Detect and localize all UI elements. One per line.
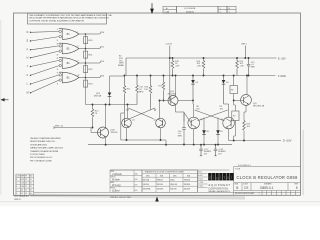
svg-text:TITLE: TITLE <box>235 168 241 170</box>
svg-text:MFD: MFD <box>251 67 256 69</box>
resistor R22 <box>84 66 94 73</box>
node CLK B input <box>169 46 171 59</box>
svg-text:W.Long: W.Long <box>112 184 121 187</box>
svg-text:R20: R20 <box>21 179 24 181</box>
gate E1C (NOR) <box>57 58 80 71</box>
DEC digital logo <box>197 170 199 192</box>
resistor R21 <box>84 51 94 58</box>
diode D5 <box>223 76 225 104</box>
svg-text:i: i <box>220 175 221 181</box>
resistor R13 <box>149 76 152 108</box>
svg-text:R7: R7 <box>233 116 235 118</box>
svg-text:1: 1 <box>16 193 17 195</box>
svg-text:6: 6 <box>16 186 17 188</box>
svg-text:02: 02 <box>30 183 32 185</box>
svg-text:CUA: CUA <box>165 11 170 14</box>
svg-text:COPYRIGHT 1969 BY DIGITAL EQUI: COPYRIGHT 1969 BY DIGITAL EQUIPMENT CORP… <box>29 19 85 22</box>
svg-text:D64: D64 <box>21 186 24 188</box>
svg-text:PRINTED CIRCUIT REV.: PRINTED CIRCUIT REV. <box>110 197 132 199</box>
transistor Q9 <box>221 117 235 129</box>
svg-text:Q2: Q2 <box>21 190 23 192</box>
top first-used strip boxes <box>163 6 236 13</box>
svg-text:D: D <box>27 31 29 34</box>
svg-text:2N1305: 2N1305 <box>143 184 149 186</box>
svg-text:i: i <box>213 175 214 181</box>
ECO column <box>198 174 208 188</box>
capacitor C18 <box>214 145 217 156</box>
resistor R7 <box>232 111 239 121</box>
svg-text:EQUIPMENT: EQUIPMENT <box>209 183 231 187</box>
svg-text:MR 1: MR 1 <box>242 44 248 46</box>
svg-text:(Q6): (Q6) <box>111 130 115 132</box>
svg-text:MR834: MR834 <box>157 180 163 182</box>
resistor R23 <box>84 80 94 87</box>
svg-text:05: 05 <box>30 193 32 195</box>
capacitor C17 <box>199 145 202 156</box>
drawing control table <box>110 170 142 192</box>
gate E1B (NOR) <box>57 43 80 56</box>
transistor Q3 <box>168 91 179 105</box>
wire output bus and terminal stubs <box>79 33 101 105</box>
svg-text:DEC: DEC <box>146 175 151 177</box>
svg-text:THIS SCHEMATIC IS FURNISHED ON: THIS SCHEMATIC IS FURNISHED ONLY FOR TES… <box>29 14 113 17</box>
diode D9 <box>216 130 220 134</box>
svg-text:g: g <box>216 176 219 181</box>
svg-text:2N1305: 2N1305 <box>157 184 163 186</box>
svg-text:IC IS DEC7400N: IC IS DEC7400N <box>30 154 45 156</box>
svg-text:PIN 14 ON EACH IC=+5V: PIN 14 ON EACH IC=+5V <box>30 156 53 159</box>
svg-text:03: 03 <box>30 186 32 188</box>
wire Q6 base and emitter <box>54 105 106 145</box>
black triangle registration mark below border <box>155 197 159 202</box>
svg-text:DEC: DEC <box>173 175 178 177</box>
svg-text:E -15V: E -15V <box>278 57 286 60</box>
wire Q3 connections <box>160 76 194 122</box>
svg-text:2N2894: 2N2894 <box>184 184 190 186</box>
diode D7 <box>108 93 112 97</box>
resistor R20 <box>84 37 94 44</box>
capacitor C15 <box>247 58 250 76</box>
svg-text:TRANSISTOR & DIODE CONVERSION: TRANSISTOR & DIODE CONVERSION CHART <box>145 171 186 174</box>
wire bottom-left rail <box>86 76 138 105</box>
svg-text:B 141: B 141 <box>198 179 202 181</box>
svg-text:a: a <box>227 176 230 181</box>
svg-text:J: J <box>57 29 58 31</box>
wire flip-flop emitter rail <box>121 113 166 145</box>
node MR 1 input <box>244 46 246 59</box>
svg-text:9-8: 9-8 <box>135 173 138 175</box>
svg-text:CLK B: CLK B <box>166 44 173 46</box>
diode D8 <box>204 118 218 145</box>
resistor R17 <box>162 76 165 101</box>
transistor Q5 <box>241 95 265 108</box>
svg-text:WHT -15: WHT -15 <box>55 126 64 128</box>
svg-text:1N3606: 1N3606 <box>184 180 190 182</box>
resistor R19 <box>243 121 246 131</box>
svg-text:2N1499A: 2N1499A <box>168 93 177 96</box>
svg-text:TRANSISTORS ARE DEC3639B: TRANSISTORS ARE DEC3639B <box>30 150 59 153</box>
node B2 label stack <box>118 56 125 68</box>
capacitor C16 <box>182 127 186 129</box>
svg-text:9-8: 9-8 <box>135 179 138 181</box>
svg-text:J.Woods: J.Woods <box>112 173 122 176</box>
svg-text:13: 13 <box>25 179 27 181</box>
svg-text:CLOCK B REGULATOR G859: CLOCK B REGULATOR G859 <box>237 175 298 180</box>
resistor R16 <box>202 58 205 76</box>
resistor R11 <box>123 76 126 113</box>
svg-text:5: 5 <box>296 186 298 190</box>
resistor R6 <box>230 86 238 94</box>
svg-text:12: 12 <box>25 190 27 192</box>
svg-text:2894-3B: 2894-3B <box>170 184 178 186</box>
gate E1A (NOR) <box>57 29 80 42</box>
svg-text:MDT4A: MDT4A <box>94 95 102 98</box>
resistor R18 <box>171 58 174 76</box>
svg-text:C 228: C 228 <box>198 182 203 184</box>
title block <box>234 167 301 196</box>
notes block <box>30 137 63 162</box>
svg-text:BRAID: BRAID <box>118 64 125 67</box>
svg-text:4: 4 <box>16 179 17 181</box>
svg-text:2N1309: 2N1309 <box>111 132 119 134</box>
svg-text:CIRCUITS ARE PROPRIETARY IN NA: CIRCUITS ARE PROPRIETARY IN NATURE AND S… <box>29 17 110 20</box>
wire rail A (-15V) and rail B (GND) <box>126 58 277 76</box>
transistor Q6 <box>98 127 119 138</box>
wire gate input lines <box>31 31 60 92</box>
svg-text:CS: CS <box>244 186 248 190</box>
svg-text:REF: REF <box>21 176 25 178</box>
diode D4 <box>192 76 194 101</box>
svg-text:2N1499: 2N1499 <box>157 189 163 191</box>
gate E1D (NOR) <box>57 72 80 85</box>
svg-text:DIODES ARE D664: DIODES ARE D664 <box>30 143 48 146</box>
top down arrow <box>151 3 154 13</box>
svg-text:2N1499A: 2N1499A <box>143 188 151 191</box>
svg-text:B: B <box>236 186 238 190</box>
left edge smudge <box>0 20 1 195</box>
svg-text:11: 11 <box>25 186 27 188</box>
proprietary note box <box>28 13 107 24</box>
svg-text:A 102: A 102 <box>198 174 202 177</box>
svg-text:G859-0-1: G859-0-1 <box>260 186 274 190</box>
svg-text:CAPACITORS ARE .01MFD;100V;20%: CAPACITORS ARE .01MFD;100V;20% <box>30 147 63 150</box>
svg-text:DRB 99: DRB 99 <box>14 199 21 201</box>
svg-text:D 310: D 310 <box>198 186 203 188</box>
svg-text:MFD: MFD <box>139 91 144 93</box>
bottom scan smudge <box>30 194 245 200</box>
svg-text:01: 01 <box>30 179 32 181</box>
svg-text:2N1309: 2N1309 <box>184 189 190 191</box>
svg-text:D.Best: D.Best <box>112 190 120 193</box>
svg-text:5: 5 <box>16 190 17 192</box>
transistor Q1 <box>122 118 136 128</box>
svg-text:2N1309: 2N1309 <box>170 189 176 191</box>
svg-text:DEC2894-3B: DEC2894-3B <box>253 106 265 108</box>
left margin arrow <box>1 99 8 102</box>
node R8 R9 labels <box>196 106 224 110</box>
svg-text:J-CU 6505B: J-CU 6505B <box>184 8 196 10</box>
svg-text:d: d <box>209 175 212 181</box>
svg-text:9-9: 9-9 <box>135 190 138 192</box>
right border inner shadow <box>302 130 305 195</box>
svg-text:2: 2 <box>16 183 17 185</box>
svg-text:MDT4A: MDT4A <box>143 179 150 182</box>
svg-text:RESISTORS ARE 1/4W; 10%: RESISTORS ARE 1/4W; 10% <box>30 140 55 143</box>
svg-text:D-CS-G859-0-1: D-CS-G859-0-1 <box>238 165 251 167</box>
svg-text:CORPORATION: CORPORATION <box>208 187 228 190</box>
transistor Q2 <box>154 118 166 128</box>
resistor R12 <box>91 105 94 128</box>
svg-text:65060-B: 65060-B <box>186 12 194 14</box>
svg-text:04: 04 <box>30 190 32 192</box>
wire flip-flop cross coupling <box>124 101 159 124</box>
svg-text:IC1: IC1 <box>21 193 24 195</box>
transistor Q8 <box>188 117 203 129</box>
svg-text:PIN 7 ON EACH IC=GND: PIN 7 ON EACH IC=GND <box>30 159 52 162</box>
svg-text:(D7): (D7) <box>96 93 100 95</box>
svg-text:W: W <box>77 75 79 77</box>
svg-text:+2W: +2W <box>197 66 201 68</box>
svg-text:C14: C14 <box>21 183 24 185</box>
svg-text:R.Hale: R.Hale <box>112 178 120 181</box>
svg-text:F GND: F GND <box>278 75 286 78</box>
svg-text:10: 10 <box>25 183 27 185</box>
svg-text:14: 14 <box>25 193 27 195</box>
svg-text:UNLESS OTHERWISE INDICATED:: UNLESS OTHERWISE INDICATED: <box>30 137 61 140</box>
conversion chart table <box>142 170 198 192</box>
svg-text:H: H <box>27 56 29 59</box>
svg-text:+2W: +2W <box>175 66 179 68</box>
svg-text:M: M <box>27 91 29 94</box>
border frame <box>14 13 301 195</box>
svg-text:9-9: 9-9 <box>135 185 138 187</box>
svg-text:R6: R6 <box>231 90 233 92</box>
svg-text:MODIFICATION HIST.: MODIFICATION HIST. <box>235 192 255 195</box>
svg-text:D +10V: D +10V <box>283 140 292 143</box>
wire right flip-flop cross coupling <box>184 101 244 145</box>
svg-text:+2W: +2W <box>240 66 244 68</box>
svg-text:l: l <box>231 175 232 181</box>
capacitor C14 <box>136 76 139 105</box>
wire bottom ground rail <box>88 144 232 146</box>
svg-text:MFD: MFD <box>178 136 183 138</box>
resistor R15 <box>236 58 239 76</box>
svg-text:7.5K: 7.5K <box>144 89 149 91</box>
parts table <box>16 174 34 195</box>
line across bottom of drawing area <box>34 191 301 193</box>
svg-text:D664: D664 <box>170 180 174 182</box>
